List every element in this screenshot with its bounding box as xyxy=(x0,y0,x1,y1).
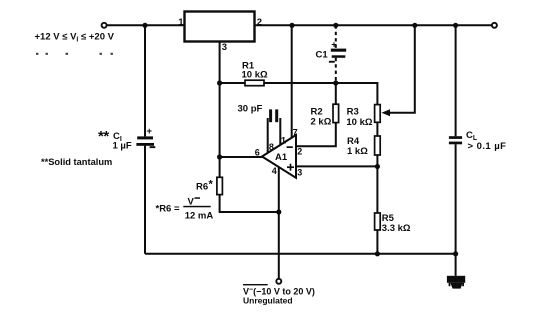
capacitor CL plates xyxy=(449,136,462,144)
wire R2 top lead xyxy=(335,83,337,104)
regulator U1 xyxy=(185,12,255,42)
input terminal xyxy=(102,23,107,28)
svg-text:2: 2 xyxy=(297,147,302,157)
svg-text:2 kΩ: 2 kΩ xyxy=(311,117,332,128)
svg-text:1 µF: 1 µF xyxy=(113,141,132,152)
svg-text:C1: C1 xyxy=(316,50,329,61)
wire top rail output side xyxy=(255,24,493,26)
svg-text:**Solid tantalum: **Solid tantalum xyxy=(41,157,112,167)
svg-text:+: + xyxy=(147,126,153,137)
wire CI column lower xyxy=(144,146,146,254)
svg-text:Unregulated: Unregulated xyxy=(243,296,293,306)
wire 30pF right lead pin1 xyxy=(279,118,281,145)
svg-text:4: 4 xyxy=(272,166,277,176)
svg-text:*R6 =: *R6 = xyxy=(156,204,180,215)
op-amp minus sign xyxy=(287,146,293,148)
capacitor C1 plates xyxy=(331,49,346,58)
capacitor C1 dashed leads xyxy=(335,25,337,83)
resistor R3 xyxy=(375,105,381,123)
node pin6 / R6 junction xyxy=(217,154,222,159)
wire CI column xyxy=(144,25,146,136)
V- terminal labels xyxy=(243,284,268,285)
ground xyxy=(447,276,465,289)
svg-text:7: 7 xyxy=(293,127,298,137)
wire ground lead xyxy=(455,254,457,276)
wire R3 to R4 xyxy=(376,122,378,136)
wire op-amp pin4 down to V- terminal xyxy=(278,167,280,279)
svg-text:**: ** xyxy=(98,128,109,145)
svg-text:A1: A1 xyxy=(275,152,288,163)
output terminal xyxy=(492,23,497,28)
wire CL column lower xyxy=(455,144,457,254)
V- terminal xyxy=(276,279,281,284)
wire op-amp pin6 xyxy=(220,156,263,158)
capacitor 30pF plates xyxy=(269,109,278,122)
svg-text:30 pF: 30 pF xyxy=(238,104,263,115)
node R6 bottom / pin4 junction xyxy=(276,209,281,214)
resistor R5 xyxy=(375,213,381,230)
wire R1 rail xyxy=(220,83,378,105)
svg-text:8: 8 xyxy=(269,142,274,152)
svg-text:10 kΩ: 10 kΩ xyxy=(346,117,372,128)
wire R5 to bottom rail xyxy=(376,230,378,254)
wire bottom rail xyxy=(145,253,456,255)
faded dots row xyxy=(36,53,113,55)
node ground rail junction xyxy=(453,251,458,256)
op-amp A1 xyxy=(262,135,296,178)
wire node to R5 xyxy=(376,167,378,214)
wire CL column upper xyxy=(455,25,457,136)
op-amp plus sign xyxy=(287,164,294,171)
svg-text:1: 1 xyxy=(178,17,184,28)
svg-text:12 mA: 12 mA xyxy=(185,211,214,222)
svg-text:+: + xyxy=(331,40,337,51)
wire op-amp pin7 supply xyxy=(291,25,293,138)
wire regulator pin3 down xyxy=(219,42,221,84)
svg-text:6: 6 xyxy=(255,148,260,158)
svg-text:3: 3 xyxy=(297,168,302,178)
wire R3 wiper feed from top rail xyxy=(389,25,415,112)
resistor R4 xyxy=(375,136,381,155)
node C1 top junction xyxy=(333,23,338,28)
capacitor CI plates xyxy=(136,136,154,145)
svg-text:+12 V ≤ VI ≤ +20 V: +12 V ≤ VI ≤ +20 V xyxy=(35,32,115,44)
wire top rail input side xyxy=(106,24,184,26)
node R3 wiper feed junction xyxy=(412,23,417,28)
resistor R6 xyxy=(217,177,223,194)
node CI top junction xyxy=(142,23,147,28)
node C1 bottom / R2 junction xyxy=(333,80,338,85)
R3 wiper arrowhead xyxy=(382,109,391,116)
wire op-amp pin3 to node xyxy=(296,165,377,167)
wire R6 bottom to pin4 column xyxy=(220,195,279,212)
wire R2 lead down to output xyxy=(296,123,336,147)
svg-text:10 kΩ: 10 kΩ xyxy=(242,70,268,81)
wire R6 column from R1 rail xyxy=(219,83,221,177)
node R4-R5 / pin3 junction xyxy=(375,164,380,169)
resistor R2 xyxy=(333,104,339,122)
svg-text:3: 3 xyxy=(222,42,227,53)
svg-text:> 0.1 µF: > 0.1 µF xyxy=(468,141,507,152)
svg-text:R6: R6 xyxy=(196,182,208,193)
node R5 bottom rail junction xyxy=(375,251,380,256)
node pin7 supply junction xyxy=(289,23,294,28)
node CL top junction xyxy=(453,23,458,28)
wire 30pF left lead pin8 xyxy=(267,118,269,153)
node R1 left junction xyxy=(217,80,222,85)
svg-text:1: 1 xyxy=(281,136,286,146)
svg-text:2: 2 xyxy=(257,17,262,28)
svg-text:1 kΩ: 1 kΩ xyxy=(347,146,368,157)
svg-text:3.3 kΩ: 3.3 kΩ xyxy=(382,223,411,234)
svg-text:*: * xyxy=(209,179,214,191)
resistor R1 xyxy=(245,80,264,86)
wire R4 to node xyxy=(376,155,378,167)
